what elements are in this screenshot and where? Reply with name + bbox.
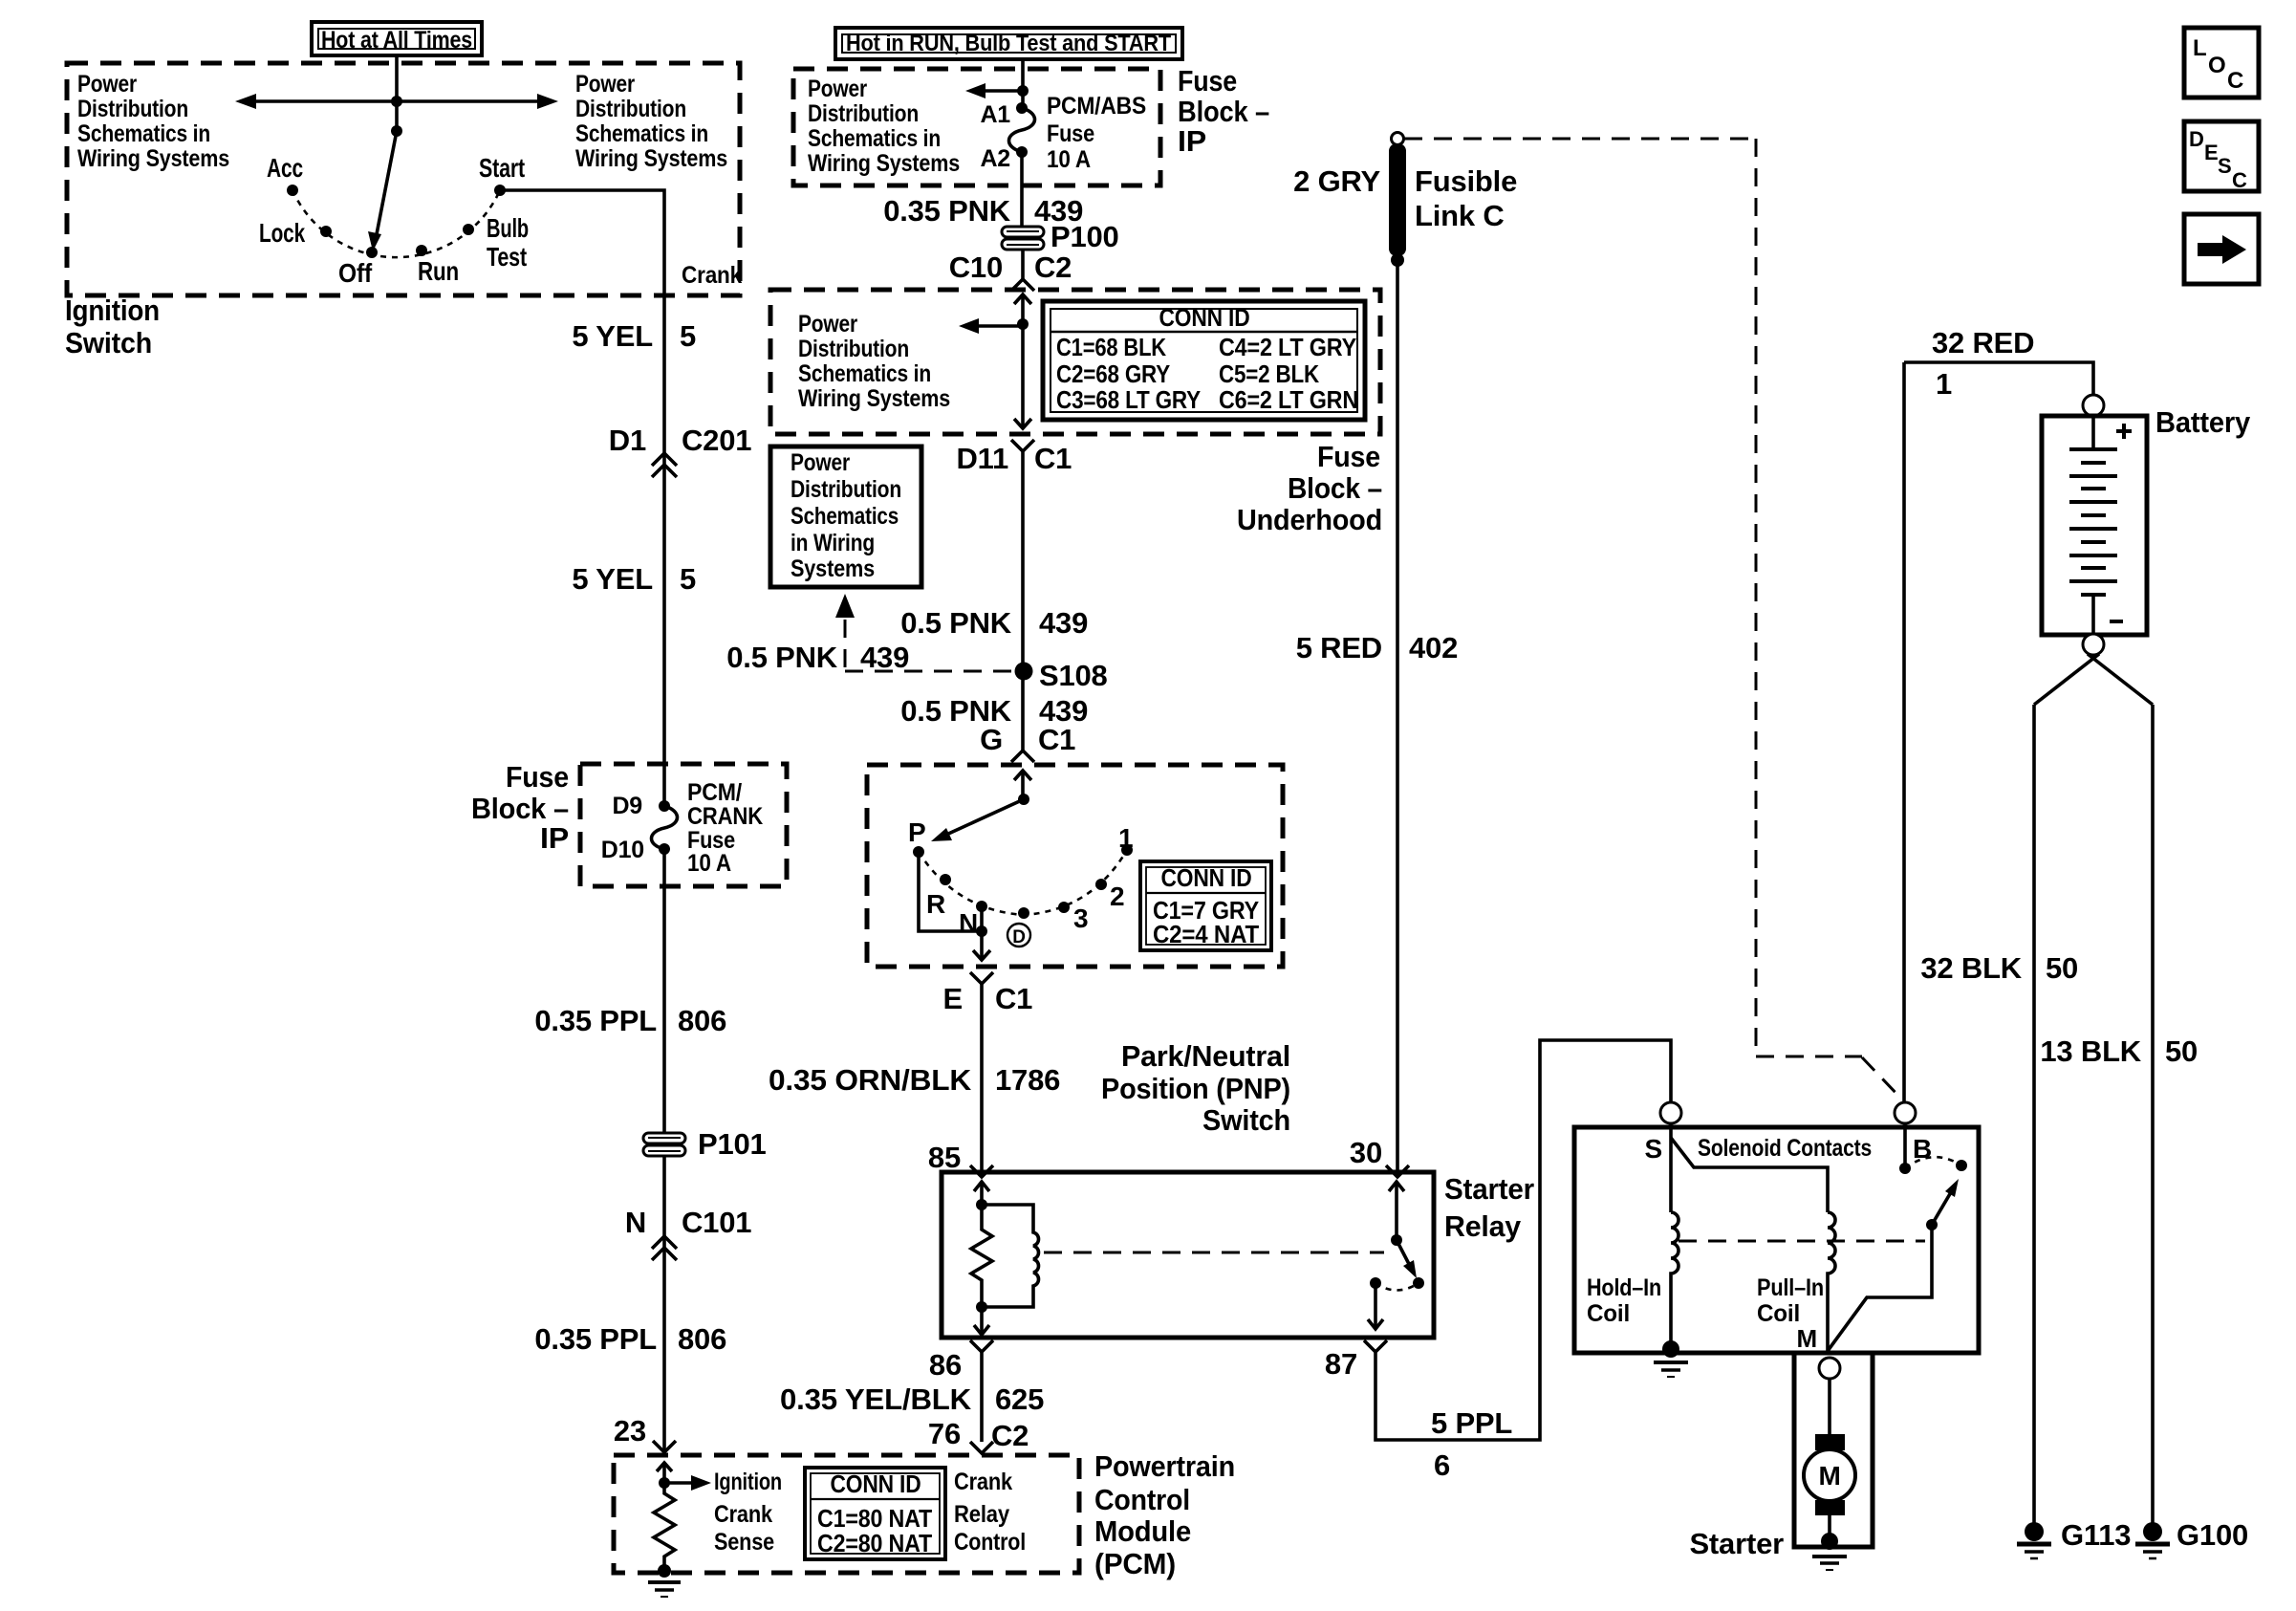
svg-text:PCM/: PCM/ [687, 779, 742, 806]
svg-text:S: S [2218, 154, 2231, 178]
svg-text:2: 2 [1110, 882, 1124, 911]
svg-text:Off: Off [338, 258, 373, 288]
svg-text:D: D [2189, 127, 2204, 151]
pin arrow into PNP box [1014, 771, 1031, 799]
node feed junction [391, 96, 402, 107]
svg-text:Solenoid Contacts: Solenoid Contacts [1698, 1135, 1872, 1162]
svg-text:2 GRY: 2 GRY [1293, 164, 1380, 198]
svg-text:Hot at All Times: Hot at All Times [321, 27, 472, 54]
svg-text:A1: A1 [980, 101, 1010, 128]
svg-text:Schematics in: Schematics in [808, 125, 941, 152]
battery plus [2093, 416, 2132, 449]
resistor crank sense [654, 1483, 675, 1569]
svg-text:P100: P100 [1051, 220, 1119, 253]
svg-text:0.5 PNK: 0.5 PNK [900, 606, 1012, 640]
node Off [366, 247, 378, 258]
svg-text:C: C [2227, 68, 2243, 94]
svg-text:Crank: Crank [714, 1501, 772, 1528]
svg-text:32 BLK: 32 BLK [1920, 951, 2022, 985]
svg-text:Wiring Systems: Wiring Systems [798, 385, 950, 412]
battery plates [2069, 449, 2117, 595]
label Park/Neutral Position (PNP) Switch [1101, 1039, 1290, 1137]
svg-text:R: R [926, 889, 945, 919]
svg-text:G100: G100 [2177, 1518, 2248, 1552]
ground G113 [2017, 1518, 2131, 1558]
svg-text:M: M [1818, 1461, 1840, 1491]
svg-text:Lock: Lock [259, 218, 305, 248]
node R [940, 874, 951, 885]
svg-text:IP: IP [1178, 124, 1206, 158]
svg-text:G113: G113 [2061, 1518, 2131, 1552]
svg-text:Underhood: Underhood [1237, 503, 1382, 536]
wire N down with arrow [973, 906, 990, 960]
wire 5 RED down to relay 30 [1396, 260, 1399, 1176]
pull-in coil [1828, 1212, 1835, 1351]
svg-text:85: 85 [928, 1141, 961, 1174]
svg-text:Ignition: Ignition [714, 1469, 782, 1495]
wire 32 RED from battery [1904, 362, 2093, 395]
starter relay box [942, 1172, 1434, 1338]
pin arrow into relay 30 [1389, 1182, 1404, 1240]
svg-text:P: P [908, 817, 925, 847]
svg-text:Power: Power [798, 311, 857, 337]
node 3 [1058, 902, 1070, 913]
relay moving contact arrow [1397, 1240, 1417, 1278]
battery positive terminal [2083, 395, 2104, 416]
svg-text:A2: A2 [980, 145, 1010, 172]
svg-text:CONN ID: CONN ID [831, 1469, 921, 1498]
svg-text:Coil: Coil [1757, 1300, 1800, 1327]
svg-text:CONN ID: CONN ID [1161, 863, 1252, 892]
svg-text:CRANK: CRANK [687, 803, 763, 830]
node 2 [1095, 879, 1107, 890]
PNP switch dashed box [867, 765, 1283, 967]
DESC reference box [2184, 121, 2259, 192]
wire P to N output [919, 852, 982, 931]
dashed wire from fusible link to solenoid B [1404, 139, 1900, 1098]
solenoid contact right [1956, 1160, 1967, 1171]
svg-text:13 BLK: 13 BLK [2040, 1034, 2141, 1068]
svg-text:0.35 YEL/BLK: 0.35 YEL/BLK [780, 1382, 972, 1416]
svg-text:50: 50 [2046, 951, 2078, 985]
svg-text:Fuse: Fuse [506, 760, 569, 794]
svg-text:10 A: 10 A [687, 850, 731, 877]
connector C1 pin D11 [956, 440, 1072, 751]
svg-text:Sense: Sense [714, 1529, 774, 1556]
svg-text:E: E [2204, 141, 2218, 164]
svg-text:Schematics in: Schematics in [77, 120, 210, 147]
svg-text:Wiring Systems: Wiring Systems [575, 145, 727, 172]
wire from hot box [395, 55, 399, 131]
svg-text:5: 5 [680, 562, 696, 596]
svg-text:Distribution: Distribution [791, 476, 901, 503]
svg-text:Control: Control [954, 1529, 1026, 1556]
fuse PCM/ABS pins A1 A2 [980, 101, 1034, 172]
svg-text:C2=80 NAT: C2=80 NAT [817, 1529, 932, 1557]
PNP switch arc [919, 850, 1127, 915]
node N [976, 901, 987, 912]
svg-text:Pull–In: Pull–In [1757, 1274, 1824, 1301]
svg-text:CONN ID: CONN ID [1159, 303, 1250, 332]
svg-text:C: C [2232, 168, 2247, 192]
svg-text:Block –: Block – [1178, 95, 1269, 128]
wire crossover to grounds [2034, 654, 2153, 1527]
svg-text:C1: C1 [1034, 442, 1072, 475]
svg-text:C2=4 NAT: C2=4 NAT [1153, 920, 1259, 948]
conn id table PNP [1140, 861, 1271, 950]
svg-text:Battery: Battery [2155, 405, 2251, 439]
pin arrow out of relay 86 [974, 1307, 989, 1335]
grommet P101 [643, 1127, 767, 1161]
conn id table underhood [1043, 301, 1365, 420]
svg-text:C1: C1 [995, 982, 1032, 1015]
svg-text:Switch: Switch [65, 326, 152, 359]
svg-text:E: E [943, 982, 963, 1015]
connector C2 pin 76 [928, 1417, 1029, 1453]
LOC reference box [2184, 28, 2259, 98]
ground G100 [2135, 1518, 2248, 1558]
pin arrow into underhood box [1014, 294, 1031, 324]
svg-text:C101: C101 [682, 1206, 751, 1239]
svg-text:C2: C2 [1034, 250, 1072, 284]
svg-text:C5=2 BLK: C5=2 BLK [1219, 359, 1319, 388]
arrow to power distribution [965, 83, 1023, 98]
wire crank from Start [500, 190, 664, 806]
svg-text:Coil: Coil [1587, 1300, 1630, 1327]
svg-text:1: 1 [1936, 367, 1952, 401]
node Run [416, 245, 427, 256]
wire moving contact to M [1828, 1225, 1932, 1351]
svg-text:0.5 PNK: 0.5 PNK [726, 641, 838, 674]
fusible link C [1389, 133, 1517, 268]
arrow ignition crank sense [664, 1475, 711, 1491]
svg-text:Starter: Starter [1689, 1527, 1784, 1560]
note power distribution solid box [770, 446, 921, 587]
svg-text:5 RED: 5 RED [1296, 631, 1382, 664]
header box Hot in RUN Bulb Test and START [835, 28, 1182, 59]
connector C2 pin C10 [949, 250, 1072, 291]
svg-text:Start: Start [479, 153, 525, 183]
svg-text:6: 6 [1434, 1448, 1450, 1482]
svg-text:Run: Run [418, 256, 459, 286]
svg-text:30: 30 [1350, 1136, 1382, 1169]
wire S into box [1669, 1123, 1673, 1212]
node crank sense junction [659, 1477, 670, 1489]
node Start [494, 185, 506, 196]
svg-text:C1=68 BLK: C1=68 BLK [1056, 333, 1166, 361]
svg-text:Hot in RUN, Bulb Test and STAR: Hot in RUN, Bulb Test and START [846, 31, 1171, 56]
fuse block IP dashed box [793, 69, 1160, 185]
battery minus [2093, 595, 2123, 635]
svg-text:402: 402 [1409, 631, 1458, 664]
label Powertrain Control Module (PCM) [1094, 1449, 1235, 1580]
svg-text:in Wiring: in Wiring [791, 530, 875, 556]
svg-text:50: 50 [2165, 1034, 2198, 1068]
note power distribution [798, 311, 950, 412]
pin arrow out of relay 87 [1368, 1283, 1383, 1329]
note PCM/CRANK Fuse 10 A [687, 779, 763, 877]
svg-text:439: 439 [860, 641, 909, 674]
node branch to power distribution [1017, 318, 1029, 330]
svg-text:Link C: Link C [1415, 199, 1505, 232]
fuse block IP dashed box [580, 764, 787, 886]
svg-text:Fuse: Fuse [1317, 440, 1380, 473]
arrow to power distribution [959, 318, 1023, 334]
svg-text:Distribution: Distribution [77, 96, 188, 122]
svg-text:76: 76 [928, 1417, 961, 1450]
wire bus arrows both directions [235, 94, 558, 109]
svg-text:Systems: Systems [791, 555, 875, 582]
svg-text:Distribution: Distribution [798, 336, 909, 362]
note power distribution [808, 76, 960, 177]
svg-text:Wiring Systems: Wiring Systems [77, 145, 229, 172]
wire M to motor [1828, 1379, 1831, 1434]
svg-text:Fusible: Fusible [1415, 164, 1517, 198]
svg-text:D1: D1 [609, 424, 646, 457]
coil relay [982, 1205, 1039, 1307]
pin arrow into relay 85 [974, 1182, 989, 1205]
svg-text:Distribution: Distribution [575, 96, 686, 122]
svg-text:Relay: Relay [954, 1501, 1009, 1528]
svg-text:C1: C1 [1038, 723, 1075, 756]
svg-text:5 YEL: 5 YEL [572, 319, 653, 353]
wire hot feed [1021, 59, 1025, 108]
svg-text:PCM/ABS: PCM/ABS [1047, 93, 1146, 120]
resistor relay [971, 1205, 992, 1307]
solenoid box [1574, 1127, 1979, 1353]
svg-text:Relay: Relay [1444, 1209, 1522, 1243]
wire through underhood box [1021, 324, 1025, 428]
node coil top [976, 1199, 987, 1210]
fuse block underhood dashed box [770, 290, 1380, 434]
terminal B [1895, 1102, 1916, 1123]
svg-text:Switch: Switch [1202, 1103, 1290, 1137]
svg-text:439: 439 [1039, 606, 1088, 640]
svg-text:Crank: Crank [954, 1469, 1012, 1495]
svg-text:Wiring Systems: Wiring Systems [808, 150, 960, 177]
svg-text:Ignition: Ignition [65, 294, 160, 327]
ignition switch dashed box [67, 63, 740, 295]
label Fuse Block IP [1178, 64, 1269, 158]
svg-text:Schematics in: Schematics in [575, 120, 708, 147]
svg-text:Acc: Acc [267, 153, 303, 183]
svg-text:0.35 ORN/BLK: 0.35 ORN/BLK [769, 1063, 972, 1097]
svg-text:Powertrain: Powertrain [1094, 1449, 1235, 1483]
svg-text:D: D [1012, 927, 1026, 947]
svg-text:Module: Module [1094, 1514, 1191, 1548]
svg-text:(PCM): (PCM) [1094, 1547, 1176, 1580]
svg-text:0.35 PNK: 0.35 PNK [883, 194, 1011, 228]
note: power distribution right [575, 71, 727, 172]
svg-text:Crank: Crank [682, 262, 742, 289]
svg-text:1786: 1786 [995, 1063, 1060, 1097]
starter box [1794, 1353, 1873, 1547]
hold-in coil [1671, 1212, 1679, 1347]
svg-text:Schematics: Schematics [791, 503, 899, 530]
node coil bottom [976, 1301, 987, 1313]
svg-text:S: S [1645, 1134, 1662, 1164]
svg-text:86: 86 [929, 1348, 962, 1382]
dashed solenoid linkage [1679, 1240, 1925, 1243]
wire D10 down [662, 849, 666, 1452]
svg-text:M: M [1797, 1324, 1817, 1353]
svg-text:Fuse: Fuse [1047, 120, 1094, 147]
svg-text:N: N [959, 908, 978, 938]
svg-text:N: N [625, 1206, 646, 1239]
svg-text:P101: P101 [698, 1127, 767, 1161]
solenoid contact B [1899, 1163, 1911, 1174]
node A1 feed [1017, 85, 1029, 97]
svg-text:D11: D11 [956, 442, 1008, 475]
svg-text:0.35 PPL: 0.35 PPL [534, 1322, 657, 1356]
svg-text:Block –: Block – [1288, 471, 1382, 505]
svg-text:Power: Power [77, 71, 137, 98]
svg-text:C2: C2 [991, 1419, 1029, 1452]
conn id table PCM [805, 1468, 945, 1559]
note: power distribution left [77, 71, 229, 172]
node Lock [320, 226, 332, 237]
wire 5 PPL from 87 to solenoid S [1375, 1040, 1671, 1440]
svg-text:Position (PNP): Position (PNP) [1101, 1072, 1290, 1105]
svg-text:5 PPL: 5 PPL [1431, 1406, 1512, 1440]
svg-text:IP: IP [540, 821, 569, 855]
terminal S [1660, 1102, 1681, 1123]
svg-text:Power: Power [791, 449, 850, 476]
motor starter [1804, 1434, 1855, 1537]
dashed relay linkage [1044, 1252, 1384, 1254]
svg-text:C2=68 GRY: C2=68 GRY [1056, 359, 1170, 388]
arrow up to solid box with dashed wire [835, 594, 1016, 671]
pin arrow into PCM [657, 1463, 672, 1483]
svg-text:1: 1 [1118, 823, 1133, 853]
svg-text:Distribution: Distribution [808, 100, 919, 127]
ignition switch arc [292, 190, 500, 257]
svg-text:Starter: Starter [1444, 1172, 1534, 1206]
svg-text:Hold–In: Hold–In [1587, 1274, 1661, 1301]
svg-text:D10: D10 [601, 837, 644, 863]
svg-text:L: L [2193, 35, 2206, 61]
svg-text:10 A: 10 A [1047, 146, 1091, 173]
battery negative terminal [2083, 634, 2104, 655]
svg-text:Power: Power [808, 76, 867, 102]
wire B into box [1903, 1123, 1907, 1168]
svg-text:G: G [980, 723, 1003, 756]
svg-text:32 RED: 32 RED [1932, 326, 2034, 359]
battery box [2042, 416, 2147, 635]
note Crank Relay Control [954, 1469, 1026, 1556]
svg-text:3: 3 [1073, 903, 1088, 933]
switch wiper arrow to Off [368, 131, 397, 251]
svg-text:C10: C10 [949, 250, 1003, 284]
terminal M [1819, 1358, 1840, 1379]
svg-text:0.35 PPL: 0.35 PPL [534, 1004, 657, 1037]
grommet P100 [1002, 220, 1119, 253]
svg-text:C201: C201 [682, 424, 751, 457]
svg-text:Block –: Block – [471, 792, 569, 825]
svg-text:Control: Control [1094, 1483, 1190, 1516]
svg-text:5 YEL: 5 YEL [572, 562, 653, 596]
wire S branch to pull-in coil [1671, 1138, 1828, 1212]
svg-text:87: 87 [1325, 1347, 1357, 1381]
connector C101 pin N [625, 1206, 752, 1260]
svg-text:C6=2 LT GRN: C6=2 LT GRN [1219, 385, 1358, 414]
PCM dashed box [614, 1455, 1079, 1573]
ground inside PCM [648, 1564, 681, 1597]
fuse PCM/CRANK pins D9 D10 [601, 793, 678, 863]
svg-text:Schematics in: Schematics in [798, 360, 931, 387]
node ignition feed [391, 125, 402, 137]
ground hold-in coil [1654, 1340, 1688, 1377]
svg-text:D9: D9 [612, 793, 642, 819]
svg-text:O: O [2208, 53, 2225, 78]
note PCM/ABS Fuse 10 A [1047, 93, 1146, 173]
svg-text:Fuse: Fuse [1178, 64, 1237, 98]
dashed contact arc [1905, 1157, 1961, 1168]
node Acc [287, 185, 298, 196]
node Bulb Test [463, 224, 474, 235]
label Fuse Block Underhood [1237, 440, 1382, 536]
node P [913, 846, 924, 858]
svg-text:Park/Neutral: Park/Neutral [1121, 1039, 1290, 1073]
connector C201 pin D1 [609, 424, 752, 477]
svg-text:5: 5 [680, 319, 696, 353]
svg-text:Power: Power [575, 71, 635, 98]
svg-text:C4=2 LT GRY: C4=2 LT GRY [1219, 333, 1356, 361]
pin arrow out of underhood box [1014, 419, 1031, 428]
note Ignition Crank Sense [714, 1469, 782, 1556]
svg-text:C3=68 LT GRY: C3=68 LT GRY [1056, 385, 1201, 414]
svg-text:625: 625 [995, 1382, 1044, 1416]
ground starter [1812, 1533, 1847, 1570]
svg-text:806: 806 [678, 1004, 726, 1037]
solenoid moving contact arrow [1926, 1179, 1959, 1230]
node wiper pivot [1018, 794, 1029, 805]
node relay common [1391, 1234, 1402, 1246]
relay contacts [1370, 1277, 1381, 1289]
svg-text:23: 23 [614, 1414, 646, 1448]
node D circled [1018, 907, 1029, 919]
node S108 [1015, 659, 1108, 692]
wire A2 to P100 [1020, 152, 1024, 227]
connector C1 pin E [943, 972, 1033, 1176]
connector C1 pin G [980, 723, 1075, 762]
node N junction [976, 925, 987, 937]
node 1 [1121, 844, 1133, 856]
header box Hot at All Times [312, 22, 482, 55]
arrow reference box [2184, 214, 2259, 284]
svg-text:Test: Test [487, 242, 527, 272]
svg-text:806: 806 [678, 1322, 726, 1356]
wiper arrow to P [931, 799, 1024, 841]
svg-text:B: B [1913, 1134, 1932, 1164]
svg-text:S108: S108 [1039, 659, 1108, 692]
svg-text:Bulb: Bulb [487, 213, 529, 243]
